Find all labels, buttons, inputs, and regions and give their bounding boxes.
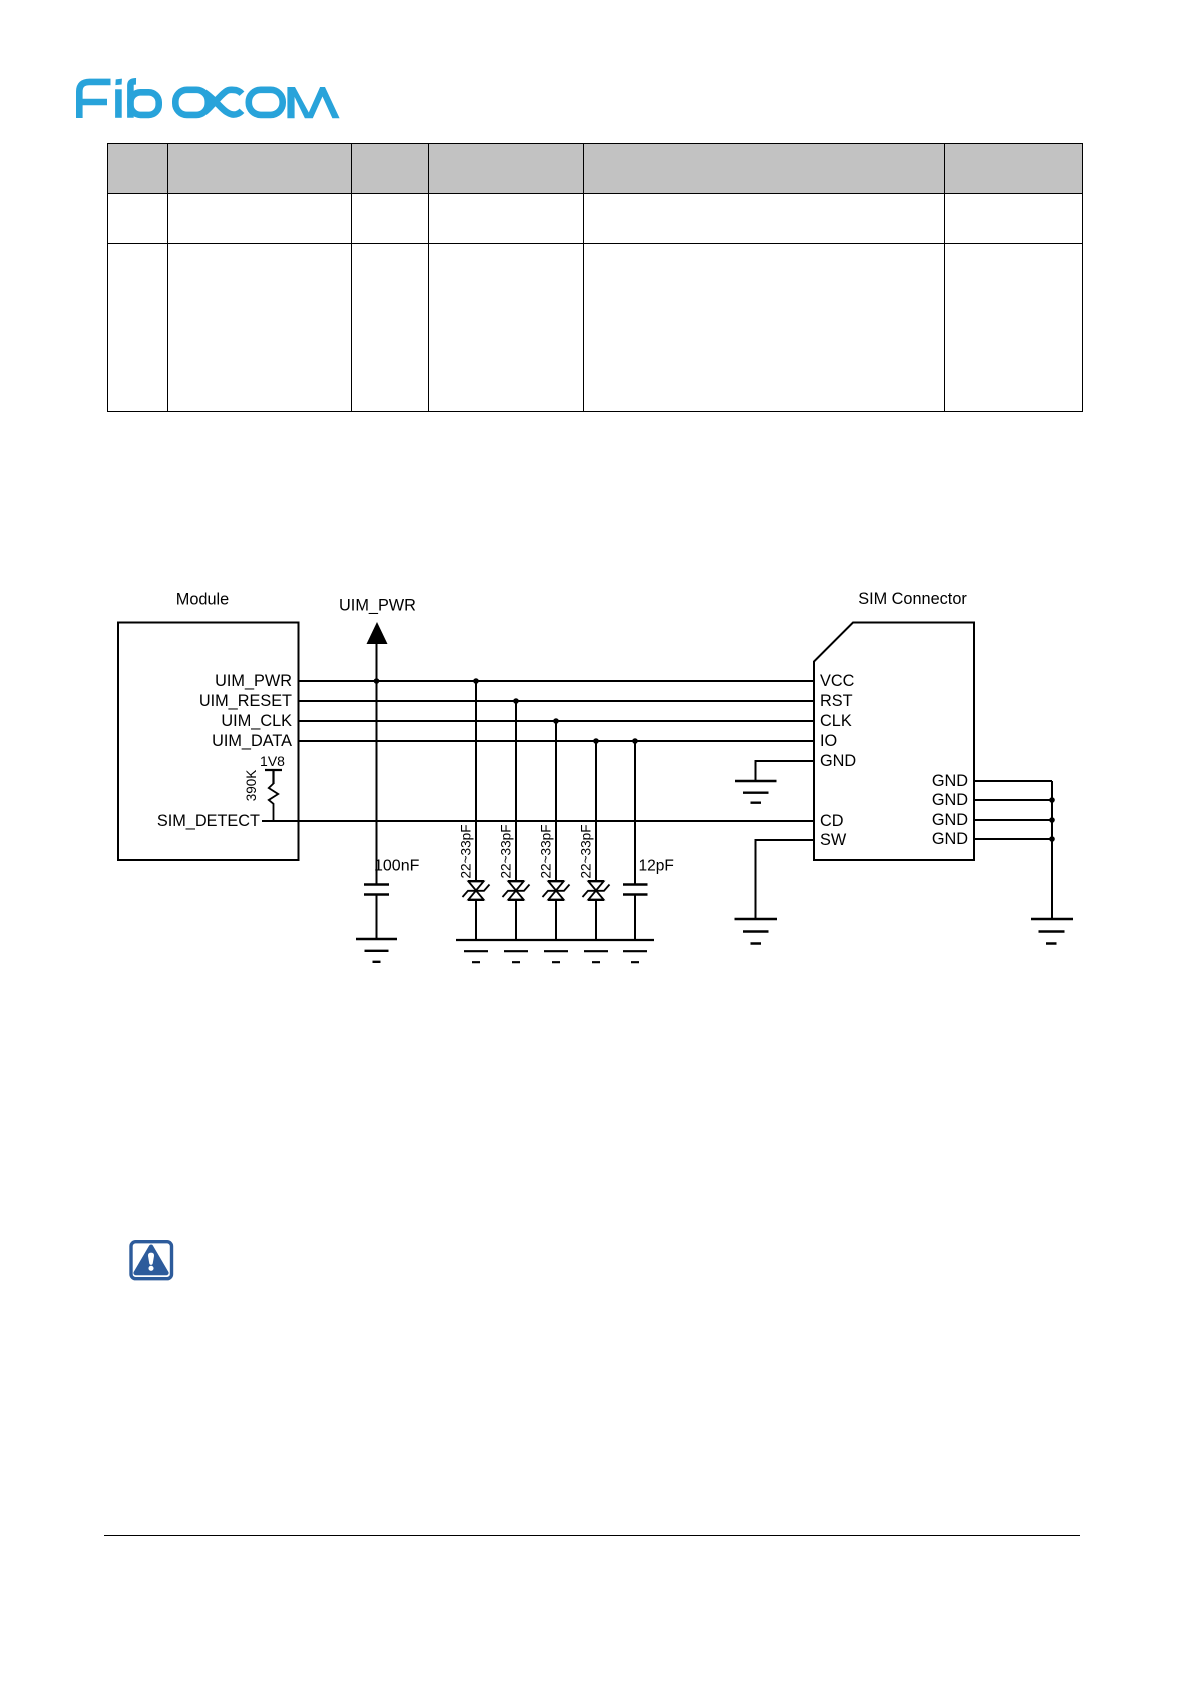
junction dot power/UIM_PWR — [374, 678, 380, 684]
junction dot rail GND3 — [1049, 817, 1055, 823]
svg-text:SIM_DETECT: SIM_DETECT — [157, 812, 260, 830]
logo letter b — [130, 81, 136, 118]
TVS D4 — [583, 881, 610, 900]
svg-text:390K: 390K — [244, 770, 259, 802]
power flag arrow — [367, 622, 388, 644]
junction dot rail GND4 — [1049, 836, 1055, 842]
svg-text:UIM_RESET: UIM_RESET — [199, 692, 292, 710]
svg-text:SIM Connector: SIM Connector — [858, 590, 967, 608]
right GND rail vertical — [1051, 781, 1053, 919]
wire GND pin to ground — [756, 761, 815, 781]
ground under right rail — [1031, 919, 1073, 944]
svg-text:VCC: VCC — [820, 672, 855, 690]
wire UIM_RESET to RST — [299, 700, 815, 702]
wire UIM_DATA to IO — [299, 740, 815, 742]
shared ground rail for D1-D4,C2 — [456, 939, 654, 941]
wire SIM_DETECT to CD — [262, 820, 814, 822]
TVS D4 wires — [595, 741, 597, 940]
capacitor C2 12pF — [634, 741, 636, 939]
svg-text:22~33pF: 22~33pF — [539, 824, 554, 878]
module U1 box — [118, 623, 299, 861]
svg-text:SW: SW — [820, 831, 847, 849]
svg-text:22~33pF: 22~33pF — [499, 824, 514, 878]
junction dot D3 — [553, 718, 559, 724]
svg-text:GND: GND — [932, 791, 968, 809]
TVS D2 wires — [515, 701, 517, 940]
wire SW pin to ground — [756, 840, 815, 919]
Fibocom logo — [0, 0, 360, 140]
TVS D1 wires — [475, 681, 477, 940]
warning icon frame — [131, 1242, 172, 1279]
junction dot D2 — [513, 698, 519, 704]
svg-text:UIM_PWR: UIM_PWR — [339, 597, 416, 615]
TVS D3 — [543, 881, 570, 900]
svg-text:UIM_DATA: UIM_DATA — [212, 732, 292, 750]
svg-text:UIM_PWR: UIM_PWR — [215, 672, 292, 690]
TVS D2 — [503, 881, 530, 900]
junction dot D1 — [473, 678, 479, 684]
ground under GND pin — [735, 781, 777, 803]
svg-text:1V8: 1V8 — [260, 753, 285, 769]
logo letter m zigzag — [287, 87, 339, 118]
wire UIM_PWR to VCC — [299, 680, 815, 682]
capacitor C1 100nF plates — [364, 885, 389, 895]
svg-text:GND: GND — [820, 752, 856, 770]
wire 100nF cap to ground — [376, 895, 378, 940]
ground under SW pin — [735, 919, 778, 944]
logo ligature crossing to c — [205, 92, 243, 114]
svg-text:GND: GND — [932, 811, 968, 829]
resistor R1 zigzag — [269, 784, 278, 822]
SIM connector J1 box — [814, 623, 974, 861]
ground marks under C2 — [623, 951, 647, 962]
wires right GND pins to rail — [974, 781, 1052, 839]
ground under C1 — [356, 939, 397, 962]
svg-text:GND: GND — [932, 772, 968, 790]
logo letter i — [115, 89, 122, 118]
svg-text:22~33pF: 22~33pF — [579, 824, 594, 878]
logo letter o2 — [249, 90, 283, 115]
TVS D3 wires — [555, 721, 557, 940]
svg-text:100nF: 100nF — [374, 858, 420, 875]
data table (empty cells) — [107, 143, 1083, 412]
junction dot C2 — [632, 738, 638, 744]
svg-text:UIM_CLK: UIM_CLK — [221, 712, 292, 730]
svg-text:IO: IO — [820, 732, 837, 750]
svg-text:CD: CD — [820, 812, 844, 830]
ground marks under D2 — [504, 951, 528, 962]
logo letter F — [79, 82, 110, 118]
svg-text:GND: GND — [932, 830, 968, 848]
ground marks under D1 — [464, 951, 488, 962]
wire UIM_PWR power rail vertical — [376, 643, 378, 885]
junction dot D4 — [593, 738, 599, 744]
wire UIM_CLK to CLK — [299, 720, 815, 722]
ground marks under D3 — [544, 951, 568, 962]
svg-text:CLK: CLK — [820, 712, 852, 730]
warning icon triangle — [136, 1247, 167, 1273]
warning icon — [125, 1236, 179, 1286]
svg-text:RST: RST — [820, 692, 853, 710]
svg-text:12pF: 12pF — [639, 858, 674, 875]
svg-text:22~33pF: 22~33pF — [459, 824, 474, 878]
resistor R1 power bar — [265, 770, 282, 784]
junction dot rail GND2 — [1049, 797, 1055, 803]
ground marks under D4 — [584, 951, 608, 962]
TVS D1 — [463, 881, 490, 900]
footer rule — [104, 1535, 1080, 1536]
svg-text:Module: Module — [176, 591, 229, 609]
warning icon exclamation — [148, 1253, 154, 1265]
logo ligature o — [175, 90, 207, 115]
